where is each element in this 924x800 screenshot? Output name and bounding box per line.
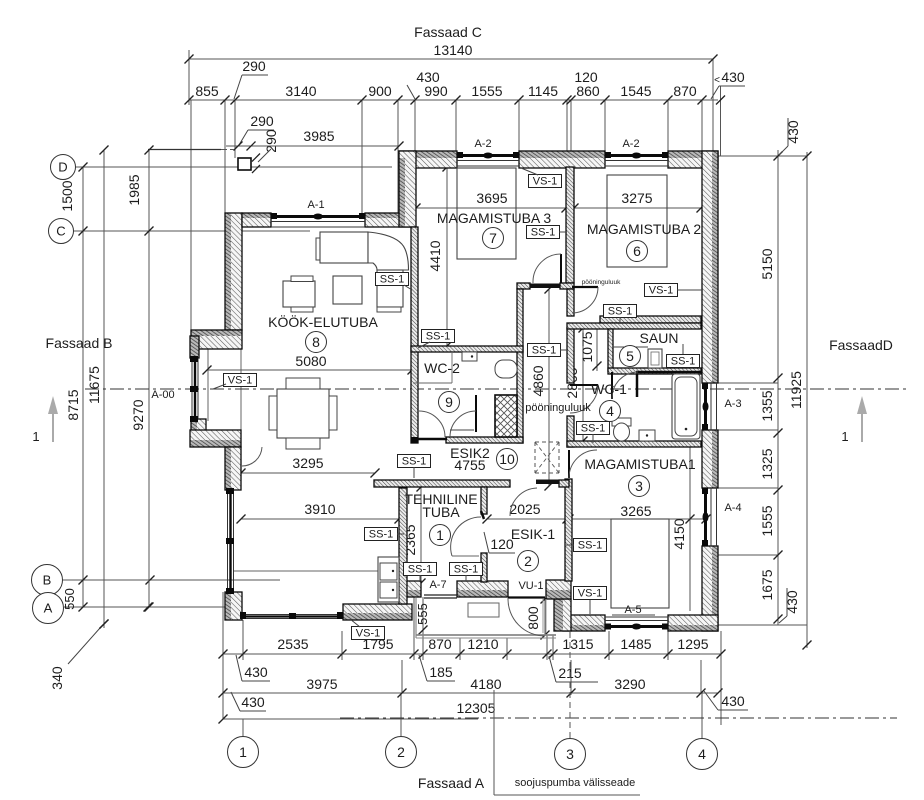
wall wc1 south	[567, 441, 701, 447]
svg-text:<: <	[714, 75, 720, 86]
box VS-1 magamistuba1	[574, 587, 607, 600]
dimension 1075	[579, 328, 602, 371]
svg-text:A-00: A-00	[151, 389, 174, 401]
svg-text:A: A	[44, 601, 53, 616]
box SS-1 saun	[667, 355, 700, 368]
window A-1	[271, 213, 365, 227]
dimension 2025	[483, 501, 574, 524]
window VS-1 bottom	[240, 612, 343, 619]
bottom extension verticals	[223, 592, 721, 738]
bottom dimension chain row3	[219, 676, 723, 698]
svg-text:soojuspumba välisseade: soojuspumba välisseade	[515, 777, 635, 789]
room circle 5	[620, 346, 641, 367]
porch door jamb lines	[543, 599, 546, 633]
svg-text:1555: 1555	[759, 505, 775, 536]
dimension 5080	[203, 353, 417, 375]
svg-text:C: C	[56, 224, 65, 239]
box VS-1 bedroom2	[645, 284, 678, 297]
label A-5 line	[612, 614, 655, 616]
dimension 340 leader	[49, 620, 109, 690]
svg-text:FassaadD: FassaadD	[829, 337, 893, 353]
room circle 1	[430, 525, 451, 546]
right 430 top leader	[779, 118, 801, 155]
wc2 toilet	[495, 360, 517, 378]
svg-text:pööninguluuk: pööninguluuk	[582, 279, 621, 286]
svg-text:430: 430	[416, 69, 440, 85]
svg-text:2535: 2535	[277, 636, 308, 652]
window VS-1 left lower	[226, 488, 234, 594]
svg-text:VS-1: VS-1	[578, 588, 602, 600]
svg-text:185: 185	[429, 664, 453, 680]
svg-text:MAGAMISTUBA1: MAGAMISTUBA1	[584, 456, 695, 472]
wall left step upper	[191, 330, 242, 349]
svg-text:pööninguluuk: pööninguluuk	[525, 402, 591, 414]
svg-text:8: 8	[312, 334, 320, 350]
wall kitchen south block	[343, 604, 412, 620]
svg-text:A-7: A-7	[429, 579, 446, 591]
door wc1	[570, 385, 598, 413]
grid circle D	[51, 155, 76, 180]
svg-text:430: 430	[721, 693, 745, 709]
wall wc1 stub	[636, 374, 639, 397]
svg-text:860: 860	[576, 83, 600, 99]
door bedroom3	[533, 254, 561, 283]
bottom 430 leader a	[236, 655, 270, 681]
window recess face lines	[208, 349, 241, 430]
wall corridor east b	[567, 328, 574, 383]
wc1 toilet	[612, 418, 631, 441]
svg-text:SS-1: SS-1	[402, 456, 426, 468]
dimension 4410	[427, 163, 452, 351]
dimension 120 leader	[484, 532, 515, 553]
svg-text:3: 3	[635, 478, 643, 494]
svg-text:4: 4	[698, 746, 706, 762]
left chain 1985/9270	[126, 146, 154, 612]
svg-text:2: 2	[524, 553, 532, 569]
svg-text:1: 1	[436, 527, 444, 543]
svg-text:A-4: A-4	[724, 502, 741, 514]
room circle 9	[439, 392, 460, 413]
svg-text:430: 430	[784, 590, 800, 614]
svg-text:ESIK-1: ESIK-1	[511, 526, 556, 542]
wall porch east step	[554, 599, 571, 631]
grid circle 1	[228, 737, 259, 768]
svg-text:VS-1: VS-1	[649, 285, 673, 297]
dimension 2865	[564, 324, 588, 446]
svg-text:7: 7	[489, 230, 497, 246]
wall corridor west	[517, 289, 523, 443]
wall saun south dark line	[636, 371, 701, 374]
wall bedroom2 south	[600, 316, 701, 323]
soojuspumba bracket	[494, 690, 640, 795]
svg-text:8715: 8715	[65, 389, 81, 420]
svg-text:11675: 11675	[86, 366, 102, 404]
svg-text:4410: 4410	[427, 240, 443, 271]
svg-text:9: 9	[445, 394, 453, 410]
svg-text:VS-1: VS-1	[356, 628, 380, 640]
door threshold bedroom3	[530, 284, 560, 289]
svg-text:855: 855	[195, 83, 219, 99]
wall bottom bedroom1 right piece	[668, 615, 718, 631]
svg-text:B: B	[43, 573, 52, 588]
wall esik1 south band	[546, 580, 571, 599]
svg-text:3: 3	[566, 746, 574, 762]
svg-text:120: 120	[574, 69, 598, 85]
wall right exterior lower	[702, 546, 718, 631]
svg-text:1: 1	[32, 429, 39, 444]
dimension 2365	[402, 483, 426, 588]
svg-text:1325: 1325	[759, 448, 775, 479]
wall left jamb lower	[191, 419, 206, 432]
svg-text:MAGAMISTUBA 2: MAGAMISTUBA 2	[587, 221, 702, 237]
svg-text:990: 990	[424, 83, 448, 99]
wall top exterior left piece	[399, 151, 457, 168]
dimension 3295	[237, 455, 380, 478]
svg-text:SS-1: SS-1	[608, 306, 632, 318]
svg-text:WC-2: WC-2	[424, 360, 460, 376]
svg-text:290: 290	[250, 113, 274, 129]
svg-text:1985: 1985	[126, 174, 142, 205]
door wc2 leaf	[413, 395, 476, 439]
window A-2 left	[457, 152, 519, 166]
door bedroom2	[572, 287, 598, 313]
svg-text:6: 6	[633, 243, 641, 259]
svg-text:290: 290	[242, 58, 266, 74]
door tehniline	[451, 511, 484, 556]
svg-text:3140: 3140	[285, 83, 316, 99]
door koek left swing	[242, 447, 262, 466]
svg-text:SS-1: SS-1	[454, 564, 478, 576]
svg-text:A-5: A-5	[624, 604, 641, 616]
wall bedroom1 west	[565, 479, 572, 581]
right chain 5150..1675	[759, 152, 783, 624]
bed bedroom2	[607, 175, 667, 267]
svg-text:D: D	[58, 160, 67, 175]
wc1 bathtub	[672, 374, 700, 439]
room circle 10	[497, 449, 518, 470]
sauna heater	[648, 349, 662, 368]
svg-text:Fassaad B: Fassaad B	[46, 335, 113, 351]
svg-text:3290: 3290	[614, 676, 645, 692]
room circle 8	[306, 332, 327, 353]
dimension 290 leader b	[239, 113, 274, 145]
section arrow right	[841, 396, 867, 444]
svg-text:1500: 1500	[59, 180, 75, 211]
dimension 3695	[412, 190, 571, 213]
room circle 7	[483, 228, 504, 249]
svg-text:430: 430	[785, 120, 801, 144]
dimension 3910	[237, 501, 404, 524]
right chain 11925	[788, 152, 812, 650]
svg-text:11925: 11925	[788, 371, 804, 409]
bottom 185 leader	[419, 655, 455, 681]
wall left step lower	[190, 430, 241, 447]
svg-text:10: 10	[499, 451, 515, 467]
svg-text:1315: 1315	[562, 636, 593, 652]
sauna bench	[613, 346, 648, 348]
svg-text:1675: 1675	[759, 569, 775, 600]
svg-text:WC-1: WC-1	[591, 381, 627, 397]
svg-text:3265: 3265	[620, 503, 651, 519]
grid circle C	[49, 219, 74, 244]
sofa	[316, 232, 409, 312]
wc2 shower area	[413, 352, 452, 383]
window A-3	[702, 383, 717, 430]
grid circle B	[32, 565, 63, 596]
door saun	[612, 372, 638, 399]
bottom 215 leader	[549, 656, 598, 682]
svg-text:4: 4	[606, 403, 614, 419]
section arrow left	[32, 396, 58, 444]
wall corridor east a	[567, 289, 574, 316]
wall top exterior right piece	[668, 151, 718, 168]
svg-text:430: 430	[241, 694, 265, 710]
grid circle 2	[386, 737, 417, 768]
wall wc1 north	[567, 323, 701, 329]
box SS-1 sofa	[376, 273, 409, 286]
svg-text:Fassaad A: Fassaad A	[418, 775, 485, 791]
heat pump dashed line	[569, 632, 571, 738]
svg-text:340: 340	[49, 666, 65, 690]
svg-text:550: 550	[62, 588, 77, 610]
wc2 washbasin	[462, 352, 477, 361]
svg-text:MAGAMISTUBA 3: MAGAMISTUBA 3	[437, 210, 552, 226]
svg-text:900: 900	[368, 83, 392, 99]
coffee table	[333, 276, 362, 304]
svg-text:1355: 1355	[759, 390, 775, 421]
svg-text:VS-1: VS-1	[533, 176, 557, 188]
dimension 4150	[671, 447, 695, 611]
window VS-1 left upper	[190, 356, 198, 422]
wall corridor east c	[567, 416, 574, 447]
svg-text:A-3: A-3	[724, 398, 741, 410]
wall bottom bedroom1 left piece	[563, 615, 605, 631]
column 290x290	[238, 158, 251, 170]
window A-2 right	[605, 152, 668, 166]
dimension 3265	[563, 503, 711, 524]
porch mat	[468, 603, 499, 617]
svg-text:555: 555	[415, 603, 430, 625]
box SS-1 wc1 bottom	[577, 422, 610, 435]
window A-4	[702, 488, 717, 546]
svg-text:1: 1	[841, 429, 848, 444]
left chain 11675	[86, 146, 109, 629]
attic hatch pooninguluuk	[535, 442, 559, 473]
svg-text:SS-1: SS-1	[369, 529, 393, 541]
wall saun west	[608, 329, 613, 371]
svg-text:1145: 1145	[528, 83, 558, 99]
room circle 4	[600, 401, 621, 422]
wall left jamb upper	[190, 336, 199, 358]
svg-text:SS-1: SS-1	[426, 331, 450, 343]
wall esik1 south mid	[457, 581, 508, 597]
door threshold esik	[536, 480, 559, 485]
svg-text:SS-1: SS-1	[532, 345, 556, 357]
svg-text:3695: 3695	[476, 190, 507, 206]
svg-text:4860: 4860	[530, 365, 546, 396]
bottom dimension chain row2	[219, 636, 726, 659]
box SS-1 bedroom3	[527, 226, 560, 239]
box VS-1 bottom	[352, 627, 385, 640]
svg-text:SS-1: SS-1	[531, 227, 555, 239]
svg-text:KÖÖK-ELUTUBA: KÖÖK-ELUTUBA	[268, 313, 378, 330]
svg-text:Fassaad C: Fassaad C	[414, 24, 482, 40]
chimney	[495, 395, 517, 437]
wall bottom-left corner	[225, 592, 242, 620]
wall right exterior mid	[702, 430, 718, 488]
svg-text:2: 2	[397, 744, 405, 760]
grid lines D C B A	[63, 167, 392, 612]
svg-text:SS-1: SS-1	[581, 423, 605, 435]
wall corridor north b	[560, 283, 574, 289]
svg-text:2025: 2025	[509, 501, 540, 517]
bed bedroom1	[611, 519, 669, 608]
wall left upper	[225, 213, 242, 330]
wall wc2 south	[446, 437, 523, 443]
svg-text:800: 800	[525, 606, 541, 630]
svg-text:1: 1	[239, 744, 247, 760]
wall wc2 north	[411, 346, 523, 352]
svg-text:1555: 1555	[471, 83, 502, 99]
top dimension chain row	[185, 69, 746, 105]
wc1 washbasin	[639, 430, 655, 441]
svg-text:3910: 3910	[304, 501, 335, 517]
dimension 290 leader a	[234, 58, 268, 99]
window A-5	[605, 617, 668, 630]
svg-text:SAUN: SAUN	[640, 330, 679, 346]
dining table	[269, 378, 337, 449]
porch edge	[416, 598, 556, 638]
bottom dimension 12305	[219, 700, 496, 724]
right 430 bottom leader	[779, 588, 800, 623]
bed bedroom3	[457, 168, 516, 259]
box SS-1 tehniline south a	[404, 563, 437, 576]
wall corridor north a	[517, 283, 530, 289]
dimension 555	[415, 597, 430, 635]
dimension 4860	[530, 285, 554, 491]
kitchen counter	[234, 557, 399, 602]
svg-text:TUBA: TUBA	[422, 504, 460, 520]
svg-text:9270: 9270	[130, 399, 146, 430]
svg-text:SS-1: SS-1	[578, 540, 602, 552]
svg-text:3295: 3295	[292, 455, 323, 471]
dimension 800	[525, 595, 550, 640]
dimension 3275	[570, 190, 706, 213]
svg-text:SS-1: SS-1	[408, 564, 432, 576]
wall saun south	[608, 368, 701, 374]
room circle 3	[629, 476, 650, 497]
svg-text:3975: 3975	[306, 676, 337, 692]
left chain 1500/8715	[59, 163, 88, 612]
svg-text:1075: 1075	[579, 331, 595, 362]
wall bedroom3 west upper	[399, 151, 416, 227]
svg-text:A-2: A-2	[622, 138, 639, 150]
box SS-1 tehniline west	[365, 528, 398, 541]
wall A-1 right piece	[365, 213, 413, 227]
grid circle 4	[687, 739, 718, 770]
svg-text:430: 430	[721, 69, 745, 85]
section line 1-1	[85, 388, 908, 390]
svg-text:SS-1: SS-1	[380, 274, 404, 286]
svg-text:1485: 1485	[620, 636, 651, 652]
grid circle A	[33, 593, 64, 624]
box SS-1 esik2	[398, 455, 431, 468]
door A-7 lines	[424, 595, 457, 598]
svg-text:1295: 1295	[677, 636, 708, 652]
dimension 13140 / Fassaad C title	[185, 24, 718, 64]
bottom 430 leader b	[231, 692, 266, 711]
right dimension lines	[718, 86, 807, 648]
svg-text:13140: 13140	[434, 42, 473, 58]
door bedroom1	[569, 450, 597, 478]
wall tehniline divider	[481, 487, 487, 582]
svg-text:12305: 12305	[457, 700, 496, 716]
box SS-1 magamistuba1	[574, 539, 607, 552]
box SS-1 wc1 top	[604, 305, 637, 318]
wall top exterior mid piece	[519, 151, 605, 168]
svg-text:5150: 5150	[759, 248, 775, 279]
svg-text:870: 870	[673, 83, 697, 99]
door VU-1 threshold	[508, 596, 545, 598]
wall left mid	[225, 447, 241, 490]
armchair	[283, 276, 315, 312]
svg-text:SS-1: SS-1	[671, 356, 695, 368]
wall kitchen east	[399, 488, 407, 604]
bottom dash-dot line	[340, 717, 897, 719]
svg-text:A-1: A-1	[307, 199, 324, 211]
extension lines top	[189, 50, 713, 340]
bottom right 430 leader	[704, 691, 748, 710]
svg-text:430: 430	[244, 664, 268, 680]
svg-text:4150: 4150	[671, 518, 687, 549]
svg-text:3985: 3985	[303, 128, 334, 144]
wall tehniline south block	[401, 581, 421, 597]
svg-text:VS-1: VS-1	[228, 375, 252, 387]
grid circle 3	[555, 739, 586, 770]
room circle 6	[627, 241, 648, 262]
dimension 3985	[148, 128, 404, 151]
wall bedroom divider	[566, 167, 574, 283]
svg-text:4755: 4755	[454, 457, 485, 473]
svg-text:3275: 3275	[621, 190, 652, 206]
door esik2-esik1	[510, 488, 537, 516]
wall esik top b	[559, 480, 569, 487]
room circle 2	[518, 551, 539, 572]
wall interior x411	[411, 227, 418, 443]
box SS-1 tehniline south b	[450, 563, 483, 576]
box SS-1 wc2 wall	[422, 330, 455, 343]
door vu1	[508, 598, 545, 636]
box VS-1 bedroom3	[529, 175, 562, 188]
box SS-1 corridor	[528, 344, 561, 357]
box VS-1 left wall	[224, 374, 257, 387]
svg-text:A-2: A-2	[474, 138, 491, 150]
svg-text:5080: 5080	[295, 353, 326, 369]
left dimension verticals	[83, 150, 149, 628]
svg-text:4180: 4180	[470, 676, 501, 692]
svg-text:VU-1: VU-1	[518, 580, 543, 592]
svg-text:5: 5	[626, 348, 634, 364]
wall right exterior upper	[702, 151, 718, 383]
wall A-1 left piece	[242, 213, 271, 227]
wall esik top a	[374, 480, 510, 487]
svg-text:1545: 1545	[620, 83, 651, 99]
